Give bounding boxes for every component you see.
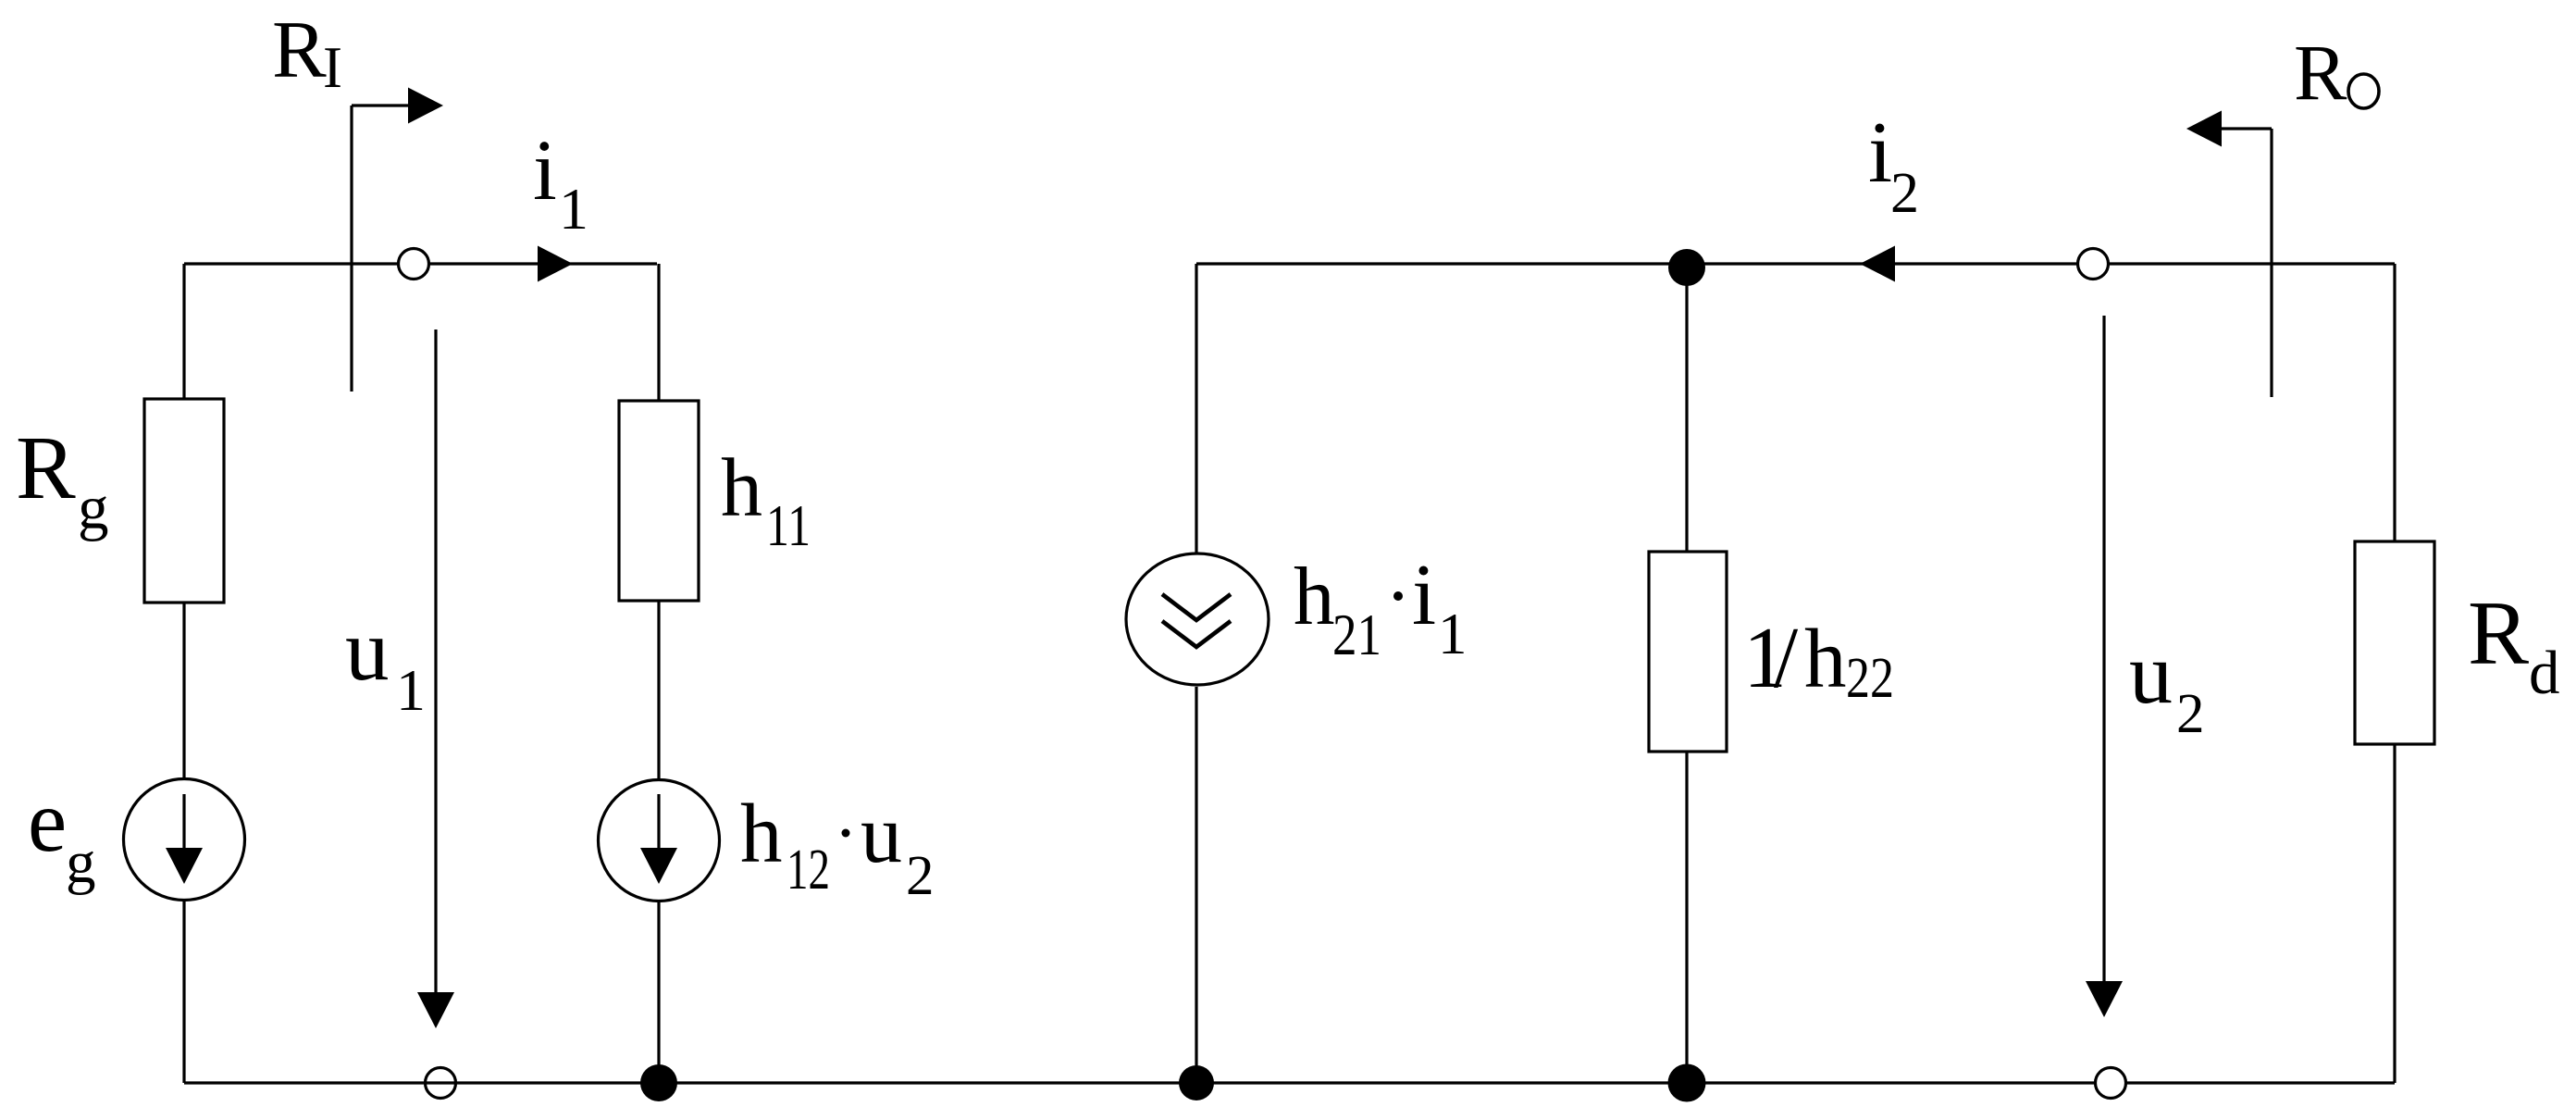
wire left vertical down to Rg: [182, 264, 185, 399]
wire down to h21 source: [1195, 264, 1197, 553]
current i2 arrowhead on top wire: [1860, 246, 1895, 282]
svg-text:1: 1: [1438, 602, 1468, 666]
wire top-right horizontal (node 2): [1196, 262, 2395, 265]
wire h12u2 to ground rail: [657, 901, 660, 1083]
dependent voltage source h12*u2 (circle with down arrow): [599, 780, 720, 901]
svg-text:i: i: [1868, 105, 1892, 201]
svg-text:d: d: [2529, 639, 2560, 707]
RI input-resistance pointer arrow: [350, 106, 353, 392]
wire h11 to h12u2 source: [657, 601, 660, 779]
voltage u2 arrow (downward): [2102, 316, 2105, 984]
svg-text:/: /: [1774, 610, 1799, 706]
output terminal (bottom, open circle): [2096, 1068, 2126, 1099]
svg-text:g: g: [66, 829, 96, 896]
ground rail (bottom wire): [184, 1081, 2395, 1084]
svg-text:21: 21: [1332, 602, 1381, 667]
svg-text:22: 22: [1846, 647, 1894, 710]
svg-text:1: 1: [396, 657, 426, 723]
svg-text:i: i: [533, 123, 557, 218]
svg-text:2: 2: [906, 845, 935, 907]
resistor h11 body: [619, 401, 699, 601]
junction dot (h12 branch / ground): [640, 1064, 677, 1101]
current i1 arrowhead on top wire: [538, 246, 573, 282]
resistor 1/h22 body: [1649, 552, 1727, 752]
svg-text:11: 11: [766, 493, 811, 558]
svg-text:h: h: [1294, 552, 1335, 642]
svg-text:R: R: [272, 6, 327, 95]
svg-text:h: h: [1804, 612, 1847, 705]
junction dot (h21 branch / ground): [1179, 1065, 1214, 1100]
svg-text:R: R: [2294, 28, 2347, 117]
voltage source eg (circle with down arrow): [124, 779, 245, 901]
voltage u1 arrow (downward): [434, 329, 437, 995]
resistor Rg body: [144, 399, 224, 603]
svg-text:g: g: [78, 474, 109, 542]
wire top-left horizontal (node 1): [184, 262, 657, 265]
wire node2 corner down to Rd: [2393, 264, 2396, 541]
svg-text:h: h: [740, 787, 783, 880]
junction dot (1/h22 branch / ground): [1668, 1064, 1706, 1102]
wire eg bottom to ground rail: [182, 901, 185, 1083]
svg-text:u: u: [861, 789, 902, 880]
svg-text:2: 2: [2176, 683, 2205, 745]
junction dot (node 2 / 1h22 branch): [1668, 249, 1705, 286]
wire Rd to ground rail: [2393, 744, 2396, 1083]
svg-text:i: i: [1412, 547, 1436, 643]
wire h21 source to ground rail: [1195, 687, 1197, 1083]
svg-text:12: 12: [786, 839, 830, 901]
svg-text:u: u: [345, 601, 390, 699]
input terminal (top, open circle): [399, 249, 429, 280]
svg-text:R: R: [16, 418, 76, 517]
svg-text:I: I: [323, 35, 342, 100]
wire down to h11: [657, 264, 660, 401]
input terminal (bottom, open circle): [426, 1068, 456, 1099]
svg-text:1: 1: [559, 176, 588, 242]
wire Rg bottom to eg source: [182, 603, 185, 777]
svg-text:u: u: [2129, 626, 2173, 722]
wire 1/h22 to ground rail: [1685, 752, 1688, 1083]
svg-text:2: 2: [1890, 162, 1919, 225]
svg-text:e: e: [28, 772, 67, 870]
wire down to 1/h22: [1685, 264, 1688, 552]
RO output-resistance pointer arrow: [2270, 129, 2273, 397]
label RO subscript O (drawn ring): [2348, 74, 2379, 108]
svg-text:R: R: [2468, 583, 2529, 684]
output terminal (top, open circle): [2078, 249, 2109, 280]
dependent current source h21*i1 (circle with double chevron): [1126, 553, 1269, 685]
svg-text:h: h: [721, 442, 762, 534]
resistor Rd body: [2355, 541, 2434, 744]
